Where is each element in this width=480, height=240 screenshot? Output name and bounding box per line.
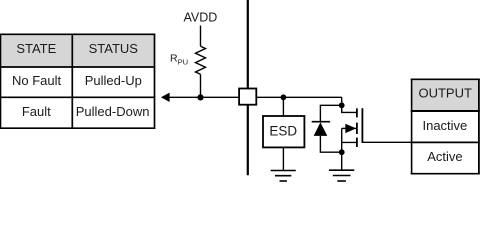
transistor Q1 body/source vertical [341, 128, 343, 152]
wire gate to output table [362, 141, 412, 143]
package boundary line [247, 0, 249, 175]
svg-text:STATE: STATE [16, 41, 56, 56]
svg-text:Pulled-Up: Pulled-Up [85, 73, 142, 88]
wire ESD to ground [282, 147, 284, 170]
resistor RPU zigzag [196, 46, 206, 74]
wire turning down to drain node [341, 97, 343, 105]
wire resistor to node [200, 74, 202, 97]
svg-text:No Fault: No Fault [12, 73, 62, 88]
junction dot drain node [339, 102, 345, 108]
svg-text:AVDD: AVDD [183, 11, 217, 25]
svg-text:Fault: Fault [22, 104, 51, 119]
wire node to diode cathode [320, 105, 341, 121]
svg-text:ESD: ESD [269, 124, 297, 139]
arrowhead pointing left at table [161, 93, 170, 102]
ground symbol below ESD [271, 171, 296, 182]
wire AVDD to resistor [200, 26, 202, 47]
wire source node to ground [341, 152, 343, 170]
transistor Q1 channel segments [356, 108, 358, 147]
right table OUTPUT frame [411, 79, 480, 175]
wire diode anode down [320, 136, 341, 152]
svg-text:STATUS: STATUS [89, 41, 139, 56]
transistor Q1 body stub and arrow [342, 127, 356, 129]
wire down to ESD cell [282, 97, 284, 116]
wire pin to internal node [256, 96, 341, 98]
transistor Q1 source bar [342, 141, 358, 143]
svg-text:Active: Active [427, 149, 462, 164]
diode D1 cathode bar [312, 121, 330, 123]
ESD cell box [263, 116, 304, 147]
ground symbol below transistor [329, 170, 354, 181]
diode D1 triangle [314, 122, 328, 136]
svg-text:Pulled-Down: Pulled-Down [76, 104, 150, 119]
left table STATE/STATUS frame [0, 34, 155, 130]
svg-text:OUTPUT: OUTPUT [418, 86, 472, 101]
transistor Q1 drain connection [342, 105, 356, 112]
pin square on boundary [239, 89, 256, 105]
transistor Q1 gate bar [361, 108, 363, 142]
svg-text:Inactive: Inactive [422, 118, 467, 133]
svg-text:RPU: RPU [170, 53, 188, 67]
junction dot source node [339, 149, 345, 155]
junction dot at resistor node [197, 94, 203, 100]
wire arrow to pin (fault output wire) [169, 96, 239, 98]
junction dot at ESD branch [281, 94, 287, 100]
